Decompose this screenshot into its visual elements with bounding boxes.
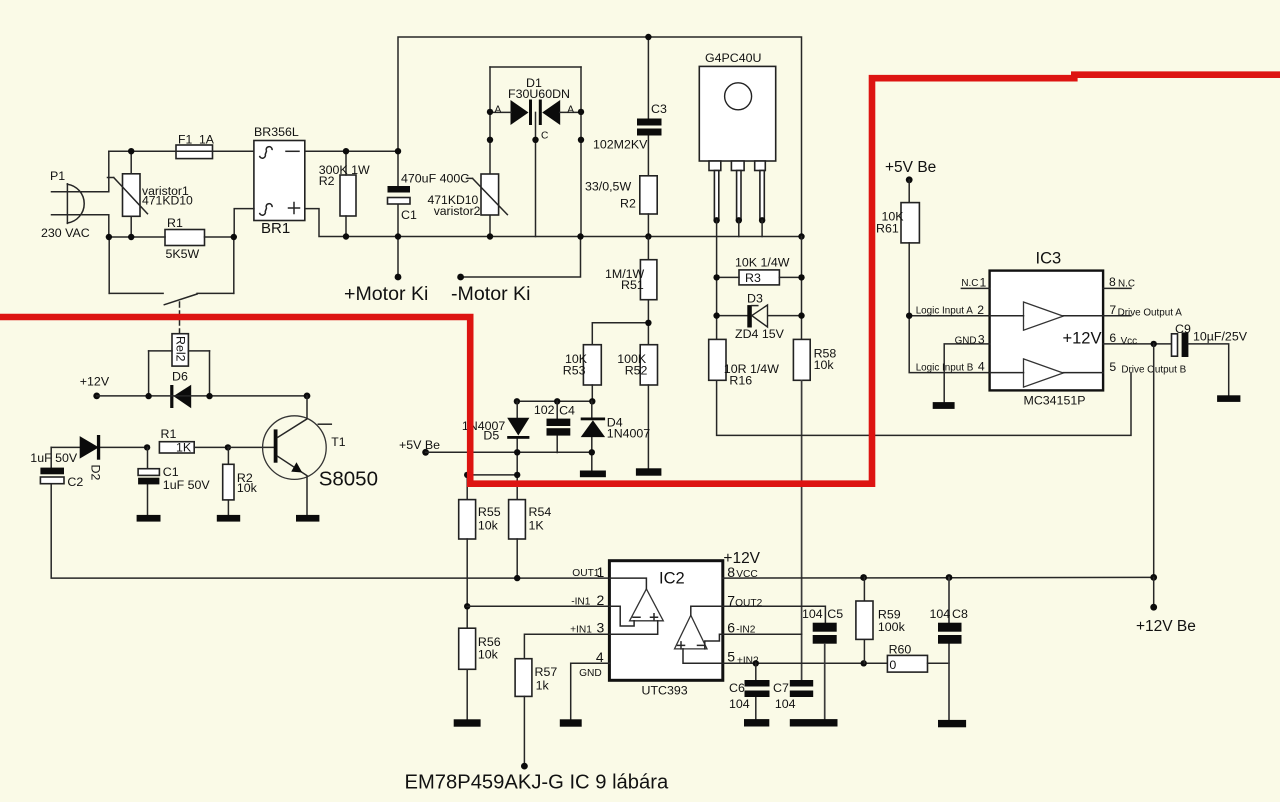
wire VCC +12V rail [723, 576, 1154, 579]
svg-text:10k: 10k [478, 519, 499, 533]
svg-text:G4PC40U: G4PC40U [705, 51, 761, 65]
capacitor C5 104 [813, 623, 837, 632]
svg-text:470uF 400C: 470uF 400C [401, 172, 469, 186]
IC U IC2 UTC393 [609, 561, 722, 681]
svg-text:C5: C5 [827, 607, 843, 621]
svg-text:R54: R54 [529, 505, 552, 519]
diode D2 [51, 446, 147, 448]
svg-text:+5V Be: +5V Be [399, 438, 440, 452]
wire R16 bottom to IC3 pin5 [717, 373, 1131, 436]
svg-text:C7: C7 [773, 681, 789, 695]
svg-text:C4: C4 [559, 404, 575, 418]
bridge rectifier BR1 [254, 141, 305, 221]
svg-text:104: 104 [775, 697, 796, 711]
svg-text:471KD10: 471KD10 [142, 194, 193, 208]
svg-text:R1: R1 [161, 427, 177, 441]
svg-text:IC3: IC3 [1036, 250, 1062, 268]
svg-text:R55: R55 [478, 505, 501, 519]
wire bottom DC rail [346, 236, 802, 238]
svg-text:3: 3 [978, 333, 985, 347]
diode D5 1N4007 [516, 401, 518, 499]
svg-text:GND: GND [579, 668, 602, 679]
svg-text:F1 1A: F1 1A [178, 133, 215, 147]
wire P1 bottom prong [52, 215, 109, 237]
resistor R54 1K [509, 500, 526, 539]
svg-text:1K: 1K [176, 441, 192, 455]
resistor R59 100k [863, 578, 865, 664]
svg-text:10K 1/4W: 10K 1/4W [735, 256, 790, 270]
ground D4 [580, 471, 606, 478]
svg-text:F30U60DN: F30U60DN [508, 87, 570, 101]
resistor R51 1M/1W [647, 237, 649, 345]
wire P1 top prong [52, 151, 109, 192]
svg-text:R16: R16 [729, 374, 752, 388]
svg-text:10k: 10k [478, 648, 499, 662]
svg-text:R2: R2 [319, 174, 335, 188]
svg-text:D6: D6 [172, 370, 188, 384]
capacitor C7 104 [790, 680, 813, 687]
relay coil Rel2 [172, 334, 188, 366]
svg-text:5: 5 [1109, 360, 1116, 374]
svg-text:EM78P459AKJ-G IC 9 lábára: EM78P459AKJ-G IC 9 lábára [405, 772, 669, 794]
wire top rail to fuse [109, 150, 176, 152]
diode D4 1N4007 [591, 401, 593, 470]
capacitor C1 470uF [397, 151, 399, 236]
svg-text:6: 6 [1109, 331, 1116, 345]
svg-text:C3: C3 [651, 102, 667, 116]
svg-text:Logic Input B: Logic Input B [916, 363, 974, 374]
ground [296, 515, 319, 522]
wire vcc down to +12V rail [1153, 344, 1155, 578]
wire lower AC rail [109, 236, 234, 238]
fuse F1 [176, 145, 213, 159]
svg-text:R53: R53 [563, 364, 586, 378]
pin6 Vcc [1103, 343, 1171, 345]
red highlight path left [0, 75, 1280, 484]
svg-text:+5V Be: +5V Be [885, 159, 936, 176]
wire +12V rail to T1 collector [97, 395, 307, 397]
svg-text:102: 102 [534, 403, 555, 417]
pin3 GND [944, 344, 989, 402]
connector P1 [66, 184, 68, 224]
svg-text:5: 5 [727, 649, 735, 665]
svg-text:D3: D3 [747, 292, 763, 306]
wire gate down [716, 220, 718, 339]
svg-text:C2: C2 [67, 475, 83, 489]
ground R56 [454, 719, 481, 726]
svg-text:33/0,5W: 33/0,5W [585, 180, 631, 194]
op-amp A [630, 589, 664, 621]
wire +IN2 rail [723, 662, 888, 664]
svg-text:3: 3 [597, 620, 605, 636]
svg-text:+IN1: +IN1 [570, 625, 592, 636]
relay Rel2 dashed link [179, 302, 181, 334]
junction dots top rails [343, 148, 349, 154]
op-amp B [675, 615, 708, 649]
svg-text:+Motor Ki: +Motor Ki [344, 283, 428, 305]
svg-text:ZD4 15V: ZD4 15V [735, 327, 785, 341]
transistor T1 S8050 [263, 416, 327, 480]
svg-text:0: 0 [889, 658, 896, 672]
svg-text:S8050: S8050 [319, 467, 378, 490]
svg-text:MC34151P: MC34151P [1024, 394, 1086, 408]
wide ground C7 C5 [790, 719, 838, 726]
svg-text:-IN1: -IN1 [571, 597, 591, 608]
ground R52 [636, 468, 662, 475]
node +Motor Ki [397, 237, 399, 278]
svg-text:R60: R60 [889, 643, 912, 657]
svg-text:104: 104 [802, 607, 823, 621]
svg-text:UTC393: UTC393 [642, 684, 688, 698]
resistor R1 5K5W [165, 230, 205, 246]
resistor R2 33/0.5W [640, 176, 657, 214]
varistor2 [481, 174, 499, 215]
pin8 N.C [1103, 287, 1131, 289]
svg-text:1uF 50V: 1uF 50V [30, 451, 78, 465]
svg-text:2: 2 [597, 592, 605, 608]
wire right pin to rail [761, 220, 763, 236]
svg-text:230 VAC: 230 VAC [41, 226, 90, 240]
wire OUT2 to C5 [723, 606, 826, 622]
node +12V Be [1153, 577, 1155, 607]
svg-text:104: 104 [729, 697, 750, 711]
wire base [228, 446, 274, 448]
svg-text:5K5W: 5K5W [166, 247, 200, 261]
resistor R57 1k [515, 659, 532, 697]
svg-text:C9: C9 [1175, 322, 1191, 336]
diode D1 F30U60DN [490, 66, 581, 68]
resistor R61 10K [908, 180, 910, 203]
svg-text:Vcc: Vcc [1121, 336, 1138, 347]
wire R55/R54 tops [467, 474, 517, 476]
wire fuse to BR1 [213, 150, 254, 152]
svg-text:100k: 100k [878, 620, 906, 634]
svg-text:8: 8 [1109, 275, 1116, 289]
svg-text:1uF 50V: 1uF 50V [163, 478, 211, 492]
capacitor C9 10uF/25V [1151, 341, 1157, 347]
resistor R53 10K [592, 323, 648, 345]
svg-text:7: 7 [1109, 303, 1116, 317]
svg-text:1k: 1k [536, 679, 550, 693]
svg-text:+12V Be: +12V Be [1136, 618, 1196, 635]
svg-text:C: C [541, 131, 548, 142]
switch S1 [109, 237, 234, 293]
wire +IN1 to R57 [524, 634, 609, 659]
svg-text:10k: 10k [814, 358, 835, 372]
capacitor C3 [647, 37, 649, 176]
wire pin2 logic input A [909, 315, 989, 317]
resistor R16 10R 1/4W [709, 339, 726, 380]
internal wiring [609, 578, 646, 589]
node -Motor Ki [461, 237, 581, 278]
capacitor C8 104 [948, 578, 950, 720]
svg-text:C6: C6 [729, 681, 745, 695]
junction dots [106, 234, 112, 240]
wire BR1 AC2 [234, 209, 254, 237]
svg-text:N.C: N.C [961, 278, 978, 289]
svg-text:D2: D2 [89, 465, 103, 481]
svg-text:+12V: +12V [80, 375, 110, 389]
wire -IN2 [723, 633, 802, 635]
svg-text:IC2: IC2 [659, 570, 685, 588]
svg-text:2: 2 [977, 303, 984, 317]
svg-text:102M2KV: 102M2KV [593, 138, 648, 152]
svg-text:10k: 10k [237, 481, 258, 495]
resistor R55 10k [459, 500, 476, 539]
svg-text:1K: 1K [529, 519, 545, 533]
svg-text:Drive Output A: Drive Output A [1118, 308, 1183, 319]
svg-text:-Motor Ki: -Motor Ki [451, 283, 530, 305]
pin1 N.C [961, 287, 989, 289]
wire +5V Be rail [426, 451, 592, 453]
wire rail to R58 [801, 237, 803, 340]
resistor R58 10k [793, 339, 810, 380]
svg-text:1: 1 [597, 564, 605, 580]
svg-text:varistor2: varistor2 [434, 204, 481, 218]
svg-text:R61: R61 [876, 222, 899, 236]
svg-text:R51: R51 [621, 278, 644, 292]
svg-text:C8: C8 [952, 607, 968, 621]
svg-text:6: 6 [727, 620, 735, 636]
capacitor C6 104 [755, 663, 757, 719]
wire -IN1 [467, 605, 609, 607]
svg-text:GND: GND [955, 336, 977, 347]
svg-text:+12V: +12V [1063, 330, 1102, 348]
buffer A [1024, 302, 1064, 330]
svg-text:1N4007: 1N4007 [607, 427, 651, 441]
svg-text:1: 1 [980, 276, 987, 290]
wire top rail [398, 37, 802, 237]
ground [137, 515, 161, 522]
wire pin4 GND [571, 663, 610, 719]
svg-text:A: A [495, 105, 502, 116]
wire BR1 minus rail [305, 150, 398, 152]
wire BR1 plus out [305, 209, 346, 237]
svg-text:R57: R57 [535, 665, 558, 679]
svg-text:D5: D5 [483, 429, 499, 443]
resistor R2 10k [227, 447, 229, 515]
svg-text:R3: R3 [745, 271, 761, 285]
svg-text:R2: R2 [620, 197, 636, 211]
wire R58 down long vertical [801, 380, 803, 680]
svg-text:A: A [567, 105, 574, 116]
svg-text:4: 4 [978, 360, 985, 374]
svg-text:R1: R1 [167, 216, 183, 230]
svg-text:10µF/25V: 10µF/25V [1193, 330, 1248, 344]
svg-text:P1: P1 [50, 169, 65, 183]
wire R53 bottom rail [517, 385, 592, 401]
buffer B [1024, 359, 1064, 387]
ground [217, 515, 240, 522]
svg-text:BR356L: BR356L [254, 125, 299, 139]
svg-text:R52: R52 [625, 364, 648, 378]
svg-text:Logic Input A: Logic Input A [916, 306, 974, 317]
resistor R52 100K [640, 345, 657, 385]
svg-text:N.C: N.C [1118, 279, 1135, 290]
svg-text:C1: C1 [401, 208, 417, 222]
varistor1 [123, 174, 141, 217]
svg-text:T1: T1 [331, 435, 345, 449]
svg-text:BR1: BR1 [261, 220, 290, 237]
wire middle pin to rail [738, 220, 740, 236]
svg-text:Rel2: Rel2 [174, 336, 188, 362]
svg-text:C1: C1 [163, 465, 179, 479]
svg-text:OUT2: OUT2 [735, 598, 763, 609]
svg-text:104: 104 [930, 607, 951, 621]
pin7 Drive Output A [1103, 315, 1131, 317]
capacitor C4 102 [556, 401, 558, 452]
resistor R56 10k [459, 628, 476, 669]
internal wires [990, 315, 1104, 317]
resistor R2 300K 1W [340, 175, 356, 216]
capacitor C1 1uF 50V [147, 447, 149, 515]
